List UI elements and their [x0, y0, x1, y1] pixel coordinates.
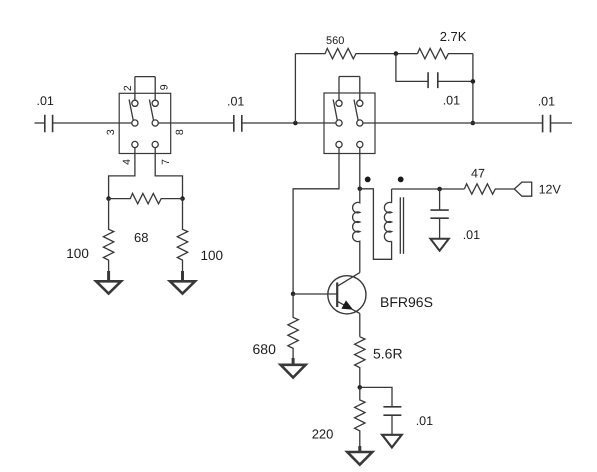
resistor 560 — [295, 35, 417, 59]
node: emitter network junction — [358, 385, 363, 390]
wire: supply line from secondary to 47 — [392, 188, 465, 190]
svg-text:100: 100 — [66, 246, 89, 261]
wire: main line right end — [551, 122, 573, 124]
wire: primary-top to secondary-bottom link — [360, 189, 392, 259]
resistor 220 — [312, 387, 365, 450]
node: junction 68-left — [106, 196, 111, 201]
svg-text:2.7K: 2.7K — [440, 29, 467, 44]
transformer phasing dot secondary — [398, 177, 404, 183]
transformer core lines — [400, 197, 403, 254]
wire: base lead — [293, 293, 337, 295]
svg-text:4: 4 — [121, 159, 133, 165]
capacitor .01 parallel with 2.7K — [428, 72, 460, 107]
wire: emitter down — [359, 313, 361, 336]
box2 switch blade left — [333, 100, 337, 121]
svg-text:68: 68 — [134, 230, 148, 245]
svg-text:BFR96S: BFR96S — [380, 294, 433, 310]
svg-text:220: 220 — [312, 427, 334, 442]
wire: box2 mid-right to main line — [363, 122, 543, 124]
ground under 220 — [347, 446, 372, 465]
wire: secondary top stub — [391, 189, 393, 203]
ground under 680 — [281, 358, 306, 378]
pin 7 contact circle — [152, 141, 158, 147]
transistor collector lead — [337, 273, 360, 287]
box2 top-right contact circle — [357, 100, 363, 106]
switch blade pin3-pin2 — [129, 100, 133, 121]
ground under emitter bypass cap — [382, 435, 402, 448]
transformer T1 primary winding — [353, 189, 360, 273]
transistor emitter lead — [337, 301, 360, 313]
wire: 560 branch vertical — [294, 54, 296, 123]
svg-text:8: 8 — [174, 129, 186, 135]
node: base junction — [291, 292, 296, 297]
svg-text:9: 9 — [159, 84, 171, 90]
resistor 68 — [109, 193, 183, 245]
capacitor .01 supply bypass — [430, 189, 480, 242]
wire: cap branch down from 560/2.7K junction — [396, 54, 428, 82]
pin 8 contact circle — [152, 120, 158, 126]
transistor emitter arrow — [341, 300, 353, 309]
pin label 9 — [159, 84, 171, 90]
pin label 4 — [121, 159, 133, 165]
box2 mid-left contact circle — [336, 120, 342, 126]
pin 2 contact circle — [132, 100, 138, 106]
box2 bottom-right contact circle — [357, 141, 363, 147]
resistor 5.6R — [355, 337, 403, 388]
pin label 3 — [105, 129, 117, 135]
node: junction cap / right vertical — [471, 79, 476, 84]
wire: pin9 stub up — [154, 77, 156, 101]
wire: cap2 to box2 pin — [242, 122, 336, 124]
ground under 100 right — [170, 271, 195, 294]
wire: junction to emitter bypass cap — [360, 387, 392, 406]
pin 3 contact circle — [132, 120, 138, 126]
capacitor .01 emitter bypass — [383, 407, 433, 435]
pin label 2 — [122, 85, 134, 91]
resistor 2.7K — [418, 29, 473, 59]
node: transformer primary top junction — [358, 187, 363, 192]
wire: main line left end — [35, 122, 45, 124]
capacitor .01 between box1 and box2 — [227, 95, 244, 132]
switch blade pin8-pin9 — [149, 100, 153, 121]
wire: cap to right corner — [438, 80, 473, 82]
node: junction 560 / 2.7K / cap branch — [394, 51, 399, 56]
ground under bypass cap — [430, 239, 448, 251]
node: junction supply / bypass cap — [437, 187, 442, 192]
node: main line junction to 560 branch — [293, 121, 298, 126]
pin 9 contact circle — [152, 100, 158, 106]
wire: pin4 down and left — [109, 148, 135, 199]
svg-text:.01: .01 — [538, 95, 555, 109]
transformer phasing dot primary — [365, 177, 371, 183]
relay/filter box U2 outline — [324, 93, 375, 154]
svg-text:.01: .01 — [416, 414, 433, 428]
box2 mid-right contact circle — [357, 120, 363, 126]
wire: top loop joining pin2 and pin9 — [135, 76, 155, 78]
transformer T1 secondary winding — [384, 202, 391, 241]
resistor 680 — [253, 294, 299, 363]
wire: 2.7K right corner down to main line — [472, 54, 474, 123]
ground under 100 left — [96, 271, 121, 294]
svg-text:.01: .01 — [227, 95, 244, 109]
resistor 47 — [464, 167, 514, 195]
capacitor .01 output — [538, 95, 555, 133]
svg-text:560: 560 — [326, 35, 344, 47]
svg-text:12V: 12V — [539, 182, 562, 196]
node: junction 68-right — [180, 196, 185, 201]
capacitor C? .01 input — [37, 94, 54, 132]
svg-text:5.6R: 5.6R — [373, 346, 403, 362]
resistor 100 right — [177, 199, 223, 277]
svg-text:.01: .01 — [443, 93, 460, 107]
svg-text:100: 100 — [201, 248, 224, 263]
wire: input cap to box1 pin 3 — [53, 122, 132, 124]
wire: pin7 down and right — [155, 148, 182, 199]
pin label 7 — [160, 159, 172, 165]
svg-text:680: 680 — [253, 341, 277, 357]
box2 bottom-left contact circle — [336, 141, 342, 147]
svg-text:7: 7 — [160, 159, 172, 165]
svg-text:.01: .01 — [463, 228, 480, 242]
wire: box2 top stubs — [339, 77, 360, 101]
wire: pin2 stub up — [134, 77, 136, 101]
box2 switch blade right — [354, 100, 358, 121]
wire: box2 bottom-left pin down, left, down to base junction — [293, 148, 339, 294]
box2 top-left contact circle — [336, 100, 342, 106]
resistor 100 left — [66, 199, 113, 277]
transistor Q1 BFR96S circle — [328, 276, 366, 314]
svg-text:2: 2 — [122, 85, 134, 91]
wire: box2 top loop — [339, 76, 360, 78]
relay/filter box U1 outline — [119, 93, 171, 153]
node: junction right vertical / main line — [471, 121, 476, 126]
wire: pin8 to main line — [158, 122, 234, 124]
wire: box2 bottom-right pin down to transformer junction — [359, 148, 361, 189]
pin label 8 — [174, 129, 186, 135]
svg-text:.01: .01 — [37, 94, 54, 108]
connector 12V tag — [514, 182, 531, 196]
pin 4 contact circle — [132, 141, 138, 147]
svg-text:3: 3 — [105, 129, 117, 135]
svg-text:47: 47 — [471, 167, 485, 181]
transistor base bar — [336, 283, 338, 308]
